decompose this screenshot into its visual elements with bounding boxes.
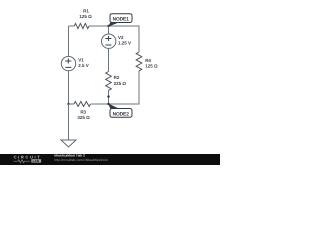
wire V2 to R2: [108, 48, 110, 71]
ground: [68, 104, 70, 140]
resistor R4: [136, 52, 142, 71]
svg-text:LAB: LAB: [33, 159, 40, 163]
NODE1 label box: [110, 14, 132, 23]
watermark bar: [0, 154, 220, 165]
wire R2 to bottom: [108, 90, 110, 104]
voltage source V1: [61, 56, 75, 70]
voltage source V2: [108, 26, 110, 34]
NODE2 label box: [110, 109, 132, 118]
wire R1 to node A: [89, 25, 109, 27]
svg-text:R2: R2: [114, 75, 120, 80]
junction dot node B: [67, 103, 69, 105]
svg-text:NODE1: NODE1: [113, 17, 130, 23]
svg-text:225 Ω: 225 Ω: [114, 81, 127, 86]
wire bottom segment to right branch: [109, 71, 140, 104]
svg-text:R1: R1: [83, 9, 89, 14]
wire left branch bottom: [68, 71, 70, 104]
NODE2 flag pointer: [108, 103, 119, 108]
svg-text:V2: V2: [118, 35, 124, 40]
resistor R1: [74, 23, 89, 28]
svg-text:125 Ω: 125 Ω: [79, 14, 92, 19]
svg-text:1.25 V: 1.25 V: [118, 40, 131, 45]
svg-text:2.5 V: 2.5 V: [78, 63, 89, 68]
wire top-left segment: [69, 25, 75, 27]
junction dot on R2 lead: [107, 95, 109, 97]
svg-text:R3: R3: [80, 110, 86, 115]
svg-text:V1: V1: [78, 58, 84, 63]
svg-text:325 Ω: 325 Ω: [77, 115, 90, 120]
junction dot node A: [107, 25, 109, 27]
resistor R2: [106, 72, 112, 91]
svg-text:khushi.akbari / lab 2: khushi.akbari / lab 2: [54, 154, 85, 158]
wire left branch top: [68, 26, 70, 56]
junction dot node C: [107, 103, 109, 105]
wire node A to top-right corner: [109, 26, 140, 52]
NODE1 flag pointer: [108, 22, 119, 26]
svg-text:NODE2: NODE2: [113, 111, 130, 117]
resistor R3: [69, 103, 75, 105]
svg-text:http://circuitlab.com/c/6beab6: http://circuitlab.com/c/6beab6yw2x44: [54, 158, 107, 162]
svg-text:125 Ω: 125 Ω: [145, 63, 158, 68]
